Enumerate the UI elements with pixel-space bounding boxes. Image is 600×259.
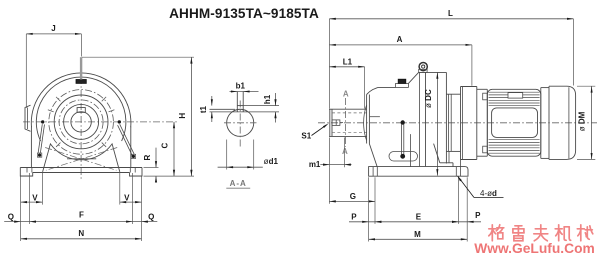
fan cover xyxy=(549,86,576,159)
svg-text:J: J xyxy=(51,24,55,33)
left foot pad xyxy=(20,168,32,177)
dimension b1 xyxy=(230,91,259,93)
dimension m1 xyxy=(328,138,330,168)
shaft bore hidden lines xyxy=(332,112,367,114)
svg-text:AHHM-9135TA~9185TA: AHHM-9135TA~9185TA xyxy=(169,6,319,21)
flange ring xyxy=(486,89,488,156)
svg-text:A-A: A-A xyxy=(230,179,247,188)
dimension G xyxy=(328,167,330,204)
hub circle r17.5 xyxy=(64,104,99,139)
svg-text:A: A xyxy=(343,90,349,99)
motor flange xyxy=(460,87,462,160)
section cut line A-A xyxy=(345,98,347,147)
housing side walls xyxy=(30,127,32,168)
section A-A shaft circle xyxy=(227,109,254,136)
keyway in section xyxy=(236,92,238,112)
ring between motor and fan cover xyxy=(540,88,542,159)
svg-text:ø DC: ø DC xyxy=(424,89,433,108)
svg-text:L1: L1 xyxy=(343,57,353,66)
dimension DC xyxy=(436,72,438,175)
breather pin xyxy=(80,57,82,79)
dimension L xyxy=(329,18,573,20)
keyway depth lines xyxy=(210,108,236,110)
dimension DM xyxy=(591,86,593,159)
front bearing boss arc xyxy=(364,105,367,141)
hollow output shaft xyxy=(329,108,367,110)
H top extension line xyxy=(82,56,194,58)
bore circle xyxy=(71,112,91,132)
left view vertical centreline xyxy=(80,64,82,179)
svg-text:A: A xyxy=(342,147,348,156)
lifting eyebolt xyxy=(419,63,427,71)
support diagonal centrelines xyxy=(45,148,116,171)
svg-text:m1: m1 xyxy=(309,160,321,169)
rear bottom slope xyxy=(434,144,440,163)
base plate side view xyxy=(369,167,468,177)
housing top line xyxy=(378,86,396,88)
section centrelines xyxy=(239,101,241,147)
svg-text:ød1: ød1 xyxy=(264,157,279,166)
base plate slots xyxy=(372,167,374,177)
svg-text:H: H xyxy=(178,113,187,119)
gearbox front face xyxy=(366,95,368,144)
top slope to rear xyxy=(408,72,418,83)
foot bottom lines xyxy=(20,175,32,177)
shaft end set screw xyxy=(332,120,340,126)
motor nameplate xyxy=(508,93,523,99)
inner dashed circle r22 xyxy=(59,100,103,144)
dimension h1 xyxy=(275,93,277,106)
motor mid band xyxy=(492,108,538,137)
svg-text:4-ød: 4-ød xyxy=(480,189,497,198)
base bottom line between feet xyxy=(33,172,130,174)
svg-text:Www.GeLufu.Com: Www.GeLufu.Com xyxy=(474,241,595,256)
housing outer arc xyxy=(31,73,131,127)
handle slot (obround) xyxy=(389,152,418,162)
housing rear verticals xyxy=(418,72,420,166)
bottom verticals under motor xyxy=(448,151,450,162)
base plate top line xyxy=(20,167,142,169)
svg-text:R: R xyxy=(143,154,152,160)
top breather plug xyxy=(76,80,86,84)
foot slots xyxy=(26,168,28,173)
left side lug xyxy=(25,105,31,131)
right clamp bolt xyxy=(118,120,121,123)
svg-text:F: F xyxy=(79,211,84,220)
dimension H xyxy=(190,57,192,176)
svg-text:S1: S1 xyxy=(301,132,311,141)
svg-text:t1: t1 xyxy=(199,105,208,113)
base top extension xyxy=(144,167,159,169)
callout 4-d foot holes xyxy=(458,176,462,181)
dimension row Q F Q xyxy=(4,221,157,223)
svg-text:L: L xyxy=(448,9,453,18)
base bottom extension xyxy=(144,175,195,177)
oil fill plug xyxy=(396,83,409,87)
bore keyway xyxy=(77,108,85,113)
dimension DM extensions xyxy=(577,85,595,87)
dimension C xyxy=(173,122,175,176)
right view centreline (axis) xyxy=(318,122,597,124)
svg-text:Q: Q xyxy=(8,212,14,221)
dimension N xyxy=(21,238,142,240)
dimension E xyxy=(375,221,458,223)
svg-text:G: G xyxy=(350,192,356,201)
support rib trapezoid xyxy=(43,144,120,172)
rear step above plate xyxy=(440,162,453,164)
left clamp bolt xyxy=(41,120,44,123)
bolt circle tick marks xyxy=(102,97,106,101)
bearing circle r27 xyxy=(54,95,108,149)
boss step line xyxy=(370,116,380,118)
svg-text:b1: b1 xyxy=(236,82,246,91)
dimension P right xyxy=(458,221,481,223)
svg-text:P: P xyxy=(351,212,357,221)
dimension t1 xyxy=(211,96,213,106)
dimension V right xyxy=(120,201,142,203)
V dimension extension lines xyxy=(20,177,22,242)
dimension d1 xyxy=(226,140,228,170)
motor lugs xyxy=(483,93,488,100)
watermark chinese characters xyxy=(489,225,504,241)
svg-text:h1: h1 xyxy=(263,94,272,104)
dimension A xyxy=(329,44,472,46)
adapter cylinder xyxy=(446,93,460,95)
svg-text:E: E xyxy=(416,212,422,221)
oil level gauge xyxy=(401,123,403,157)
P E P extension lines xyxy=(368,177,370,241)
svg-text:P: P xyxy=(475,211,481,220)
dimension L1 xyxy=(329,66,364,68)
front bottom slope xyxy=(369,144,377,167)
support chord line xyxy=(67,158,96,160)
svg-text:V: V xyxy=(124,194,130,203)
motor cooling fins bottom xyxy=(489,139,540,141)
housing second arc xyxy=(36,77,126,141)
bolt circle (dashed) xyxy=(49,90,114,155)
motor cooling fins top xyxy=(489,91,540,93)
svg-text:ø DM: ø DM xyxy=(578,111,587,131)
svg-text:A: A xyxy=(397,35,403,44)
svg-text:C: C xyxy=(160,142,169,148)
dimension R xyxy=(155,148,157,168)
svg-text:N: N xyxy=(78,229,84,238)
dimension V left xyxy=(21,201,43,203)
svg-text:Q: Q xyxy=(148,212,154,221)
dimension J xyxy=(26,33,81,35)
left view horizontal centreline xyxy=(23,121,178,123)
right foot pad xyxy=(130,168,143,177)
svg-text:V: V xyxy=(32,194,38,203)
dimension P left xyxy=(349,221,375,223)
svg-text:M: M xyxy=(414,230,421,239)
dimension M xyxy=(369,238,468,240)
motor body xyxy=(487,89,541,156)
rear top line xyxy=(419,71,447,73)
housing rib xyxy=(409,134,411,167)
